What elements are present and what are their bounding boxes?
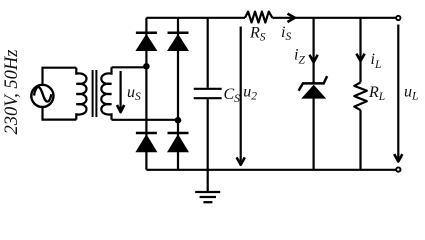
current arrow iZ [310,55,318,62]
voltage arrow uL [394,25,402,162]
zener branch wire top [313,18,315,84]
voltage arrow uS [117,71,124,112]
diode D1 top-left [135,33,157,51]
resistor RS [245,12,272,23]
load branch wire top [359,18,361,83]
capacitor branch wire top [207,18,209,88]
wire secondary bottom to bridge [112,119,179,121]
zener branch wire bottom [313,99,315,170]
voltage arrow u2 [237,27,245,165]
current arrow iS [288,14,295,22]
node junction right [175,117,182,124]
diode D4 bottom-right [167,133,189,152]
wire top rail left [146,17,245,19]
wire bottom rail [146,169,395,171]
wire bridge left branch [145,18,147,170]
terminal top [396,16,400,20]
ac source G1 [31,85,53,107]
wire source loop left bottom [43,107,77,119]
wire source loop left top [43,68,77,85]
capacitor CS [194,89,222,98]
ground [195,170,220,202]
node junction left [143,63,150,70]
diode D3 bottom-left [135,133,157,152]
current arrow iL [356,54,364,61]
wire bridge right branch [177,18,179,170]
transformer T1 secondary coil [101,67,111,120]
terminal bottom [396,167,400,171]
svg-text:230V, 50Hz: 230V, 50Hz [2,50,22,135]
capacitor branch wire bottom [207,99,209,170]
transformer T1 primary coil [76,68,86,120]
transformer T1 core [93,70,97,117]
wire secondary top to bridge [112,66,147,68]
diode D2 top-right [167,33,189,51]
resistor RL [354,82,367,110]
wire top rail right [272,17,395,19]
load branch wire bottom [359,110,361,170]
zener diode VZ [299,76,328,99]
